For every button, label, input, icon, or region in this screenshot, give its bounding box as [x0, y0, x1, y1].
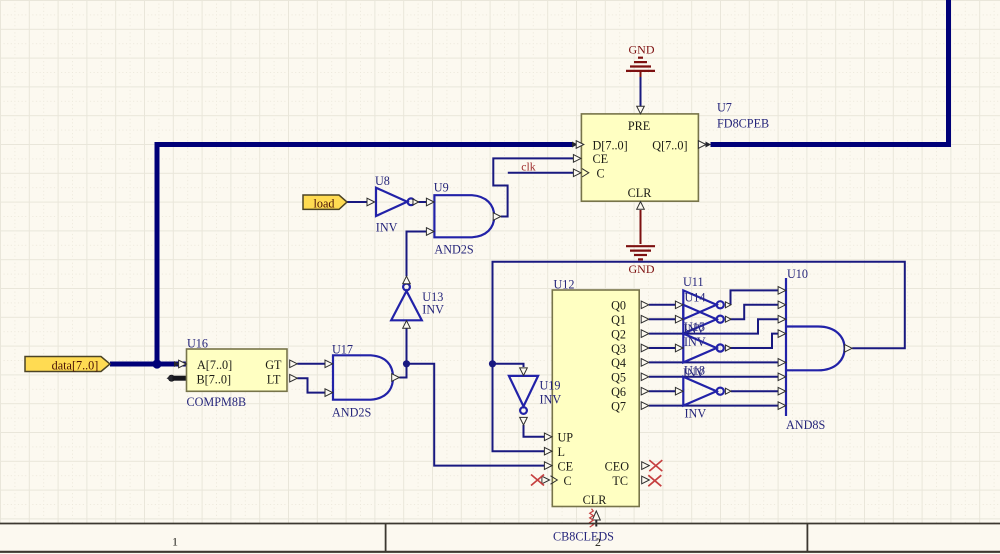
svg-text:U10: U10 — [787, 267, 808, 281]
svg-text:Q5: Q5 — [611, 371, 626, 385]
svg-text:U19: U19 — [540, 379, 561, 393]
svg-text:INV: INV — [540, 393, 562, 407]
svg-text:L: L — [558, 445, 565, 459]
svg-text:AND2S: AND2S — [332, 406, 371, 420]
svg-text:PRE: PRE — [628, 119, 650, 133]
svg-text:CLR: CLR — [583, 493, 608, 507]
svg-text:D[7..0]: D[7..0] — [593, 138, 628, 152]
svg-text:INV: INV — [422, 303, 444, 317]
svg-text:2: 2 — [595, 535, 601, 549]
svg-text:INV: INV — [685, 407, 707, 421]
svg-text:U7: U7 — [717, 101, 732, 115]
svg-text:COMPM8B: COMPM8B — [187, 395, 247, 409]
svg-text:Q7: Q7 — [611, 399, 626, 413]
svg-text:U8: U8 — [375, 174, 390, 188]
svg-text:U17: U17 — [332, 343, 353, 357]
svg-text:U11: U11 — [683, 275, 704, 289]
svg-text:AND2S: AND2S — [434, 243, 473, 257]
svg-text:U14: U14 — [685, 290, 706, 304]
svg-text:B[7..0]: B[7..0] — [197, 373, 232, 387]
svg-text:clk: clk — [521, 160, 536, 174]
svg-text:Q4: Q4 — [611, 356, 626, 370]
svg-text:Q3: Q3 — [611, 342, 626, 356]
svg-text:INV: INV — [684, 335, 706, 349]
svg-text:load: load — [314, 197, 335, 211]
svg-text:INV: INV — [376, 221, 398, 235]
svg-text:AND8S: AND8S — [786, 418, 825, 432]
svg-text:CE: CE — [593, 152, 609, 166]
svg-text:Q2: Q2 — [611, 327, 626, 341]
svg-text:U16: U16 — [187, 337, 208, 351]
svg-text:CLR: CLR — [628, 186, 653, 200]
svg-text:UP: UP — [558, 431, 574, 445]
svg-text:1: 1 — [172, 534, 178, 548]
svg-text:CEO: CEO — [605, 459, 630, 473]
svg-text:Q0: Q0 — [611, 299, 626, 313]
svg-text:U12: U12 — [554, 278, 575, 292]
svg-text:A[7..0]: A[7..0] — [197, 358, 232, 372]
svg-text:Q1: Q1 — [611, 313, 626, 327]
svg-text:GND: GND — [629, 42, 655, 56]
svg-text:GT: GT — [265, 358, 282, 372]
svg-text:U18: U18 — [684, 363, 705, 377]
svg-text:TC: TC — [612, 474, 628, 488]
svg-text:C: C — [564, 474, 572, 488]
svg-text:U9: U9 — [434, 181, 449, 195]
svg-text:data[7..0]: data[7..0] — [52, 359, 99, 373]
svg-text:LT: LT — [267, 373, 281, 387]
svg-text:CE: CE — [558, 459, 574, 473]
svg-text:GND: GND — [629, 262, 655, 276]
svg-text:Q6: Q6 — [611, 385, 626, 399]
svg-text:FD8CPEB: FD8CPEB — [717, 117, 769, 131]
svg-text:CB8CLEDS: CB8CLEDS — [553, 530, 614, 544]
svg-text:C: C — [597, 167, 605, 181]
svg-text:Q[7..0]: Q[7..0] — [652, 138, 687, 152]
svg-text:U15: U15 — [684, 320, 705, 334]
